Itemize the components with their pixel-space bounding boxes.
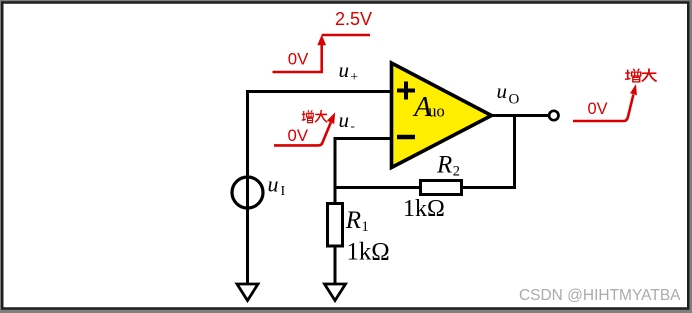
svg-text:CSDN @HIHTMYATBA: CSDN @HIHTMYATBA bbox=[519, 287, 681, 304]
svg-text:0V: 0V bbox=[288, 126, 309, 145]
svg-text:R: R bbox=[436, 152, 452, 179]
svg-text:I: I bbox=[281, 184, 286, 199]
svg-text:0V: 0V bbox=[588, 100, 608, 118]
svg-text:R: R bbox=[345, 207, 361, 234]
svg-text:O: O bbox=[509, 92, 520, 108]
svg-text:2: 2 bbox=[453, 164, 460, 180]
svg-text:2.5V: 2.5V bbox=[335, 9, 372, 29]
svg-text:uo: uo bbox=[428, 102, 445, 121]
svg-text:1kΩ: 1kΩ bbox=[347, 238, 390, 265]
svg-text:1: 1 bbox=[362, 219, 369, 235]
svg-text:u: u bbox=[497, 79, 508, 103]
svg-text:1kΩ: 1kΩ bbox=[403, 196, 445, 222]
svg-text:+: + bbox=[350, 70, 358, 85]
svg-text:0V: 0V bbox=[288, 50, 309, 69]
svg-text:u: u bbox=[268, 172, 279, 197]
svg-text:-: - bbox=[351, 118, 355, 133]
svg-text:u: u bbox=[339, 58, 350, 82]
svg-text:u: u bbox=[339, 108, 350, 132]
